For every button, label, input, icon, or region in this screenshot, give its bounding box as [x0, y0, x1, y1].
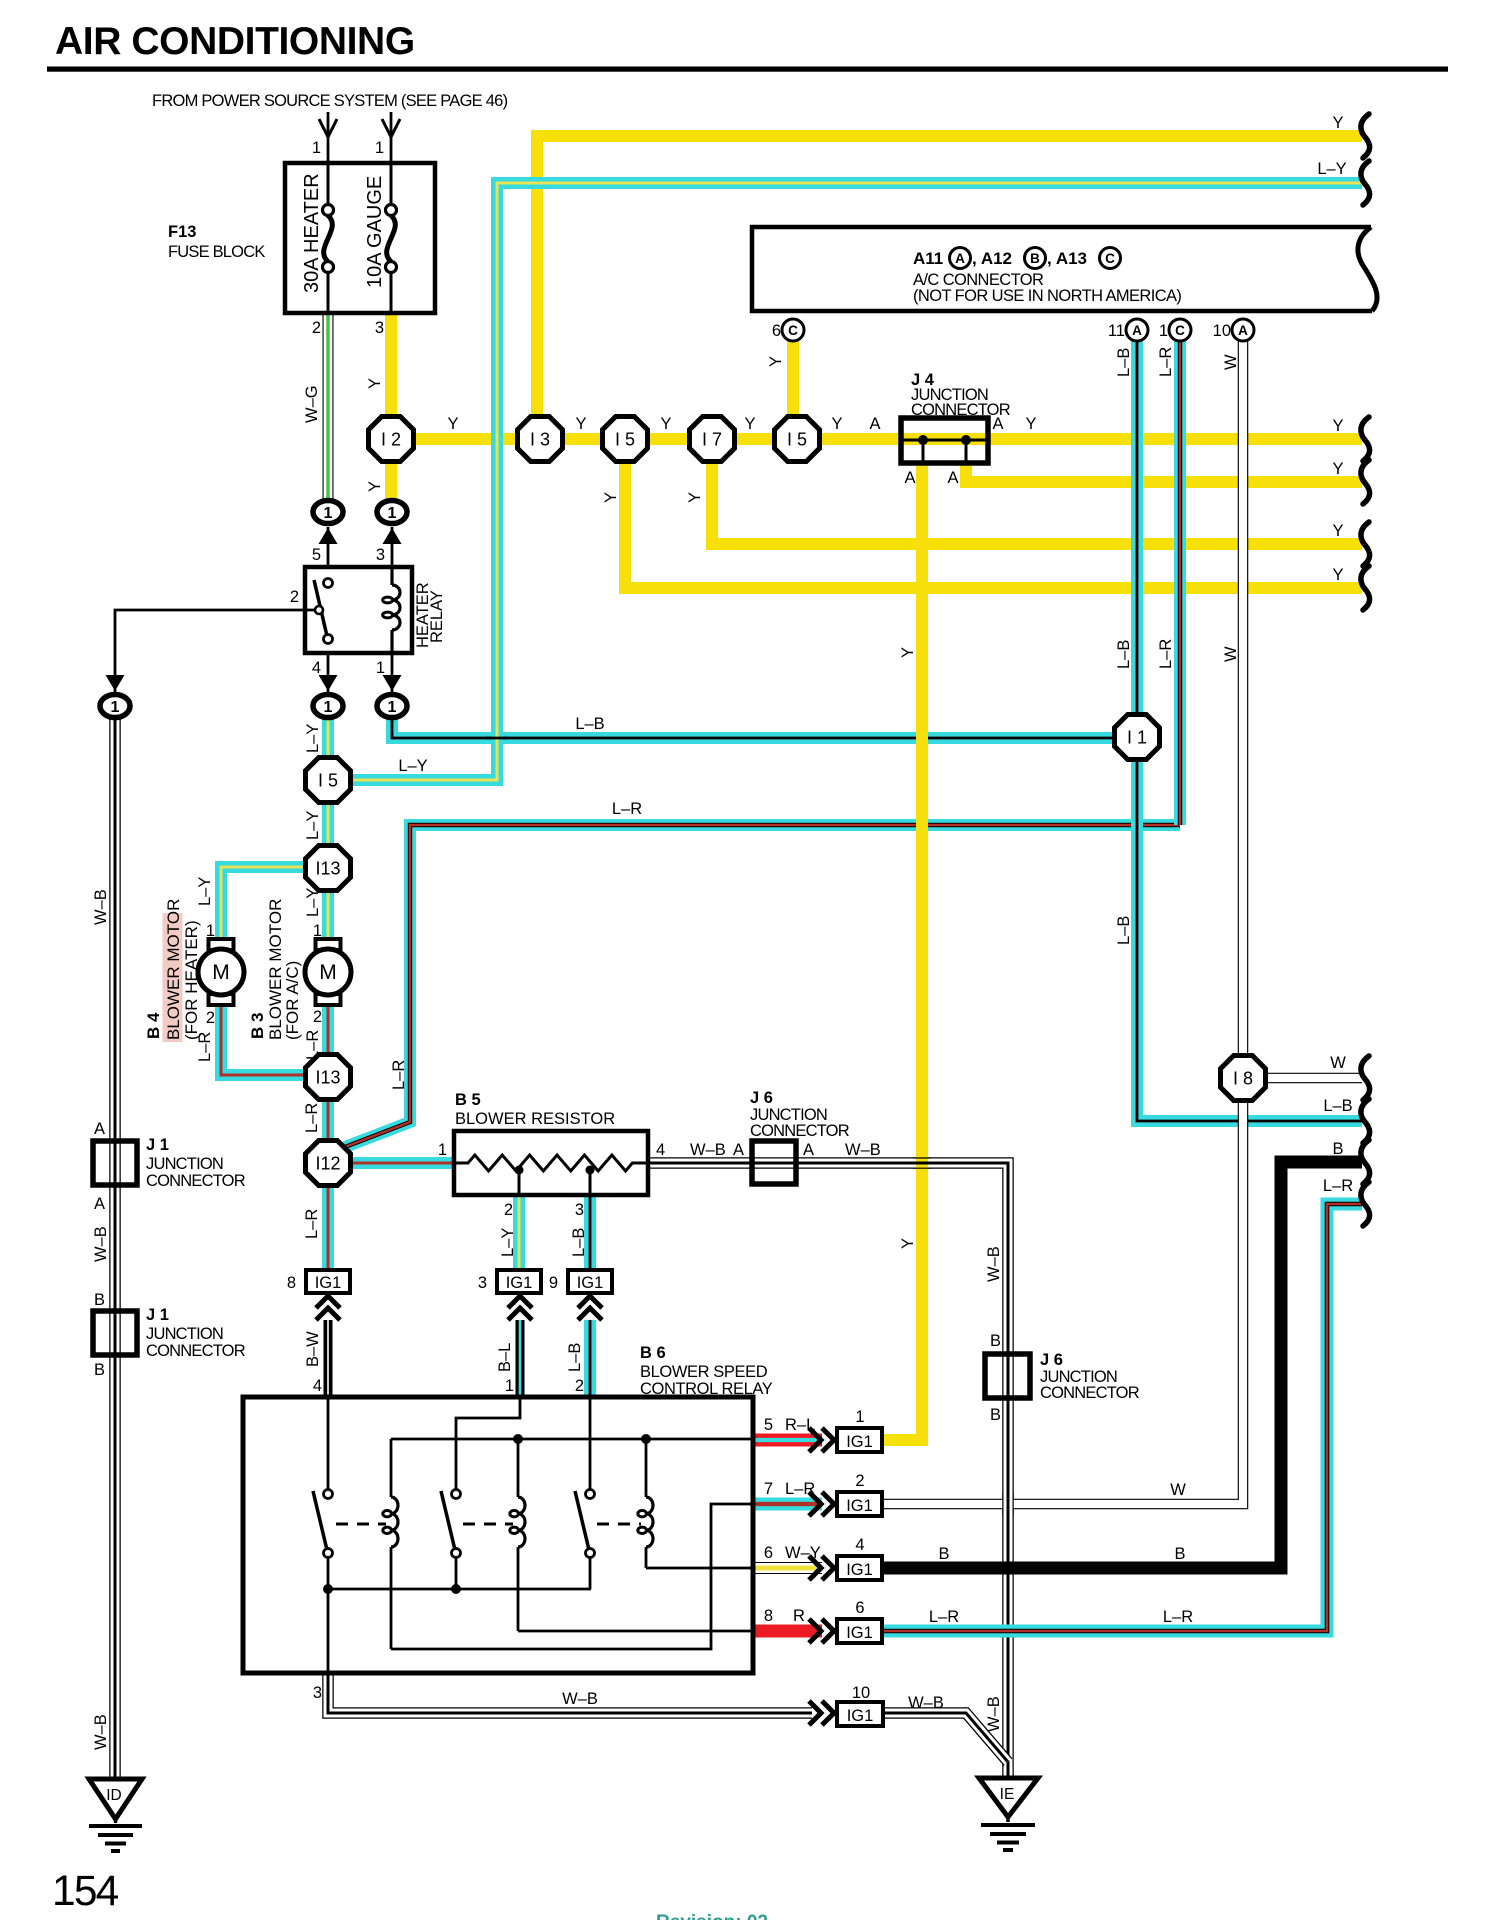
svg-text:I 5: I 5	[615, 430, 635, 450]
svg-text:1: 1	[1159, 322, 1168, 340]
wire W-G fuse pin2 to oval	[323, 313, 334, 505]
highlight pink BLOWER MOTOR B4	[163, 913, 183, 1042]
svg-text:Y: Y	[1332, 114, 1343, 132]
B6 dashed link 3	[597, 1523, 641, 1526]
svg-text:4: 4	[312, 659, 321, 677]
A/C connector box	[752, 227, 1372, 311]
ground ID	[89, 1779, 142, 1819]
wire R-L B6 pin5 stub	[753, 1434, 822, 1447]
svg-text:I 8: I 8	[1233, 1069, 1253, 1089]
svg-text:L–B: L–B	[1323, 1097, 1352, 1115]
wire heater relay pin3 to oval	[391, 527, 394, 567]
svg-text:W–B: W–B	[92, 1226, 110, 1262]
arrowhead down into oval relay pin4	[319, 675, 338, 691]
svg-text:L–R: L–R	[303, 1209, 321, 1239]
svg-text:AIR CONDITIONING: AIR CONDITIONING	[55, 20, 415, 63]
relay B6 box	[243, 1397, 753, 1673]
resistor tap 3	[586, 1166, 595, 1175]
svg-text:B–W: B–W	[304, 1331, 322, 1367]
svg-text:BLOWER RESISTOR: BLOWER RESISTOR	[455, 1110, 615, 1128]
svg-text:Y: Y	[831, 415, 842, 433]
svg-text:ID: ID	[106, 1787, 122, 1804]
svg-text:6: 6	[772, 322, 781, 340]
svg-text:I13: I13	[315, 1068, 340, 1088]
svg-text:L–B: L–B	[575, 715, 604, 733]
wire L-R I12 to IG1-8	[322, 1185, 334, 1270]
wire L-R I12 to blower resistor	[349, 1157, 456, 1169]
chevron right pin6	[809, 1556, 821, 1580]
junction dot coil3	[641, 1434, 651, 1444]
junction connector J1 upper box	[93, 1141, 137, 1185]
svg-text:J 1: J 1	[146, 1306, 169, 1324]
svg-text:9: 9	[549, 1274, 558, 1292]
wire W-B left column to ID ground	[109, 719, 121, 1778]
B6 coil 2	[517, 1439, 520, 1497]
wire Y fuse pin3 to I2	[385, 313, 397, 420]
wire B from IG1-4 up to right break	[884, 1162, 1362, 1568]
chevron right pin7	[809, 1492, 821, 1516]
svg-text:B 5: B 5	[455, 1091, 481, 1109]
B6 dashed link 1	[336, 1523, 386, 1526]
svg-text:M: M	[319, 961, 337, 984]
svg-text:8: 8	[764, 1607, 773, 1625]
svg-text:1: 1	[324, 505, 333, 522]
octagon I2	[369, 417, 414, 462]
svg-text:I 7: I 7	[702, 430, 722, 450]
chevron up IG1 3	[508, 1296, 532, 1308]
svg-text:FROM POWER SOURCE SYSTEM (SEE: FROM POWER SOURCE SYSTEM (SEE PAGE 46)	[152, 92, 508, 110]
svg-text:Y: Y	[575, 415, 586, 433]
octagon I3	[518, 417, 563, 462]
svg-text:Y: Y	[899, 647, 917, 658]
svg-text:2: 2	[504, 1201, 513, 1219]
heater relay coil	[390, 567, 393, 585]
svg-text:J 6: J 6	[750, 1089, 773, 1107]
svg-text:RELAY: RELAY	[428, 590, 446, 643]
svg-text:A: A	[1132, 323, 1142, 338]
svg-text:5: 5	[312, 546, 321, 564]
svg-text:C: C	[1175, 323, 1185, 338]
svg-text:CONNECTOR: CONNECTOR	[750, 1122, 850, 1140]
svg-text:Y: Y	[767, 356, 785, 367]
wire W-B vertical over W crossing	[1002, 1493, 1014, 1515]
svg-text:B–L: B–L	[496, 1343, 514, 1372]
junction dot coil2	[513, 1434, 523, 1444]
svg-text:2: 2	[206, 1009, 215, 1027]
octagon I5 bus	[603, 417, 648, 462]
svg-text:1: 1	[111, 699, 120, 716]
wire Y network (bus, risers, branches)	[391, 136, 1362, 1440]
wire B-L IG1-3 to B6 pin1	[516, 1320, 525, 1397]
B6 dashed link 2	[463, 1523, 513, 1526]
svg-text:BLOWER SPEED: BLOWER SPEED	[640, 1363, 768, 1381]
svg-text:I 5: I 5	[787, 430, 807, 450]
B6 switch1 to bottom bus	[327, 1557, 330, 1673]
svg-text:L–R: L–R	[1157, 639, 1175, 669]
svg-text:IG1: IG1	[577, 1274, 604, 1292]
chevron right pin3	[809, 1701, 821, 1725]
break L-B right	[1361, 1099, 1370, 1143]
svg-text:W–B: W–B	[908, 1694, 944, 1712]
wire heater relay pin4 to oval	[327, 653, 330, 692]
octagon I1	[1115, 715, 1160, 760]
svg-text:CONNECTOR: CONNECTOR	[146, 1172, 246, 1190]
svg-text:2: 2	[575, 1377, 584, 1395]
svg-text:L–B: L–B	[1115, 348, 1133, 377]
octagon I5 left	[306, 758, 351, 803]
svg-text:3: 3	[313, 1684, 322, 1702]
svg-text:L–B: L–B	[1115, 916, 1133, 945]
svg-text:A: A	[94, 1195, 105, 1213]
svg-text:IG1: IG1	[846, 1497, 873, 1515]
svg-text:4: 4	[313, 1377, 322, 1395]
svg-text:L–R: L–R	[1157, 347, 1175, 377]
svg-text:Y: Y	[366, 378, 384, 389]
connector IG1 6	[837, 1619, 882, 1643]
wire L-Y oval to I5	[322, 719, 334, 760]
B6 coil2 out to pin8	[518, 1630, 753, 1633]
svg-text:W–B: W–B	[92, 1714, 110, 1750]
B6 switch 2	[452, 1490, 461, 1499]
svg-text:1: 1	[438, 1141, 447, 1159]
svg-text:B: B	[1332, 1140, 1343, 1158]
wire L-B vertical pin11A through I1 to right break	[1137, 341, 1362, 1121]
svg-text:CONNECTOR: CONNECTOR	[146, 1342, 246, 1360]
svg-text:L–Y: L–Y	[196, 877, 214, 906]
svg-text:L–Y: L–Y	[304, 888, 322, 917]
svg-text:Y: Y	[1025, 415, 1036, 433]
svg-text:IG1: IG1	[847, 1707, 874, 1725]
connector oval 1 relay out right	[377, 695, 407, 718]
fuse F13 10A GAUGE element	[390, 163, 393, 205]
svg-text:W: W	[1222, 354, 1240, 370]
svg-text:1: 1	[375, 139, 384, 157]
break W right	[1361, 1056, 1370, 1100]
octagon I7	[690, 417, 735, 462]
arrowhead open V fuse 1	[319, 119, 337, 137]
connector oval 1 left column	[100, 695, 130, 718]
svg-text:4: 4	[656, 1141, 665, 1159]
resistor element zigzag	[454, 1155, 648, 1171]
svg-text:A11: A11	[913, 249, 943, 268]
fuse block F13 box	[285, 163, 435, 313]
B6 coil1 out to pin7	[391, 1504, 753, 1649]
svg-text:Y: Y	[899, 1238, 917, 1249]
svg-text:1: 1	[376, 659, 385, 677]
svg-text:IG1: IG1	[315, 1274, 342, 1292]
svg-text:M: M	[212, 961, 230, 984]
arrowhead up into oval relay pin5	[319, 528, 338, 544]
chevron right pin5	[809, 1428, 821, 1452]
junction connector J6 lower box	[985, 1354, 1030, 1398]
B6 pin4 internal lead	[327, 1397, 330, 1490]
connector IG1 4	[837, 1556, 882, 1580]
svg-text:A: A	[733, 1141, 744, 1159]
svg-text:A: A	[94, 1120, 105, 1138]
B6 coil 1	[390, 1439, 393, 1497]
svg-text:1: 1	[388, 699, 397, 716]
ground IE	[979, 1778, 1038, 1817]
wire L-R I13 to I12	[322, 1099, 334, 1143]
svg-text:F13: F13	[168, 223, 196, 241]
svg-text:IE: IE	[1000, 1786, 1015, 1803]
svg-text:Y: Y	[1332, 417, 1343, 435]
wire L-R B4 motor to I13	[221, 999, 307, 1075]
connector oval 1 fuse-relay right	[377, 501, 407, 524]
svg-text:1: 1	[312, 139, 321, 157]
svg-text:W: W	[1170, 1481, 1186, 1499]
wire L-B IG1-9 to B6 pin2	[584, 1320, 596, 1397]
svg-text:Y: Y	[1332, 566, 1343, 584]
connector IG1 2	[837, 1492, 882, 1516]
svg-text:Y: Y	[744, 415, 755, 433]
svg-text:R: R	[793, 1607, 805, 1625]
svg-text:Revision: 02: Revision: 02	[656, 1912, 768, 1920]
svg-text:3: 3	[575, 1201, 584, 1219]
wire L-Y from I5 up and across to right break	[350, 183, 1362, 780]
wire heater relay pin2 to left column	[115, 610, 305, 692]
svg-text:2: 2	[855, 1472, 864, 1490]
svg-text:CONTROL RELAY: CONTROL RELAY	[640, 1380, 773, 1398]
svg-text:L–B: L–B	[570, 1228, 588, 1257]
octagon I8	[1221, 1056, 1266, 1101]
wire L-B from heater relay pin1 oval to I1	[392, 719, 1115, 738]
motor B4 blower (for heater)	[209, 939, 234, 950]
wire heater relay pin1 to oval	[391, 653, 394, 692]
J4 internal bus	[901, 439, 988, 442]
connector IG1 9	[568, 1270, 612, 1293]
svg-text:11: 11	[1108, 322, 1125, 340]
svg-text:JUNCTION: JUNCTION	[146, 1325, 223, 1343]
svg-text:B 3: B 3	[248, 1013, 267, 1039]
octagon I13 lower	[306, 1055, 351, 1100]
svg-text:B: B	[94, 1361, 105, 1379]
svg-text:3: 3	[376, 546, 385, 564]
junction dot sw1	[323, 1584, 333, 1594]
wire W-B from blower resistor through J6 down to IE ground	[648, 1163, 1008, 1777]
svg-text:10: 10	[852, 1684, 870, 1702]
svg-text:I 1: I 1	[1127, 728, 1147, 748]
junction connector J4 box	[901, 418, 988, 463]
wire W-Y B6 pin6 stub	[753, 1562, 822, 1574]
svg-text:I13: I13	[315, 859, 340, 879]
svg-text:, A12: , A12	[972, 249, 1012, 268]
svg-text:C: C	[788, 323, 798, 338]
B6 coil 3	[645, 1439, 648, 1497]
B6 switch 1	[324, 1490, 333, 1499]
svg-text:L–R: L–R	[304, 1030, 322, 1060]
svg-text:L–R: L–R	[303, 1103, 321, 1133]
svg-text:I 3: I 3	[530, 430, 550, 450]
wire W-B edge lines over yellow crossing	[913, 1157, 931, 1159]
octagon I5 bus2	[775, 417, 820, 462]
wire L-Y resistor tap2 to IG1-3	[513, 1195, 525, 1270]
svg-text:I12: I12	[315, 1154, 340, 1174]
svg-text:W–B: W–B	[985, 1696, 1003, 1732]
svg-text:10A GAUGE: 10A GAUGE	[364, 176, 386, 288]
break L-Y top right	[1361, 161, 1370, 205]
svg-text:W–G: W–G	[303, 385, 321, 423]
svg-text:1: 1	[505, 1377, 514, 1395]
arrowhead down into oval left column	[106, 675, 125, 691]
junction connector J6 upper box	[752, 1141, 796, 1184]
svg-text:L–B: L–B	[566, 1343, 584, 1372]
svg-text:L–Y: L–Y	[499, 1228, 517, 1257]
svg-text:IG1: IG1	[846, 1624, 873, 1642]
svg-text:1: 1	[855, 1408, 864, 1426]
svg-text:W–B: W–B	[92, 889, 110, 925]
svg-text:IG1: IG1	[506, 1274, 533, 1292]
svg-text:Y: Y	[1332, 460, 1343, 478]
arrowhead down into oval relay pin1	[383, 675, 402, 691]
connector IG1 1	[837, 1428, 882, 1452]
wire W from I8 to right break	[1265, 1073, 1362, 1084]
svg-text:30A HEATER: 30A HEATER	[301, 173, 323, 293]
svg-text:IG1: IG1	[846, 1561, 873, 1579]
svg-text:(NOT FOR USE IN NORTH AMERICA): (NOT FOR USE IN NORTH AMERICA)	[913, 287, 1181, 305]
fuse F13 30A HEATER element	[327, 163, 330, 205]
wire L-Y I5 to I13	[322, 802, 334, 847]
svg-text:B: B	[94, 1291, 105, 1309]
B6 pin1 internal lead	[456, 1397, 520, 1490]
svg-text:(FOR A/C): (FOR A/C)	[283, 961, 302, 1040]
svg-text:(FOR HEATER): (FOR HEATER)	[182, 920, 201, 1040]
wire L-Y I13 to B3 blower motor	[322, 890, 334, 946]
wire L-R B3 motor to I13	[322, 999, 334, 1057]
svg-text:L–R: L–R	[1163, 1608, 1193, 1626]
octagon I12	[306, 1141, 351, 1186]
break B right	[1361, 1140, 1370, 1184]
svg-text:W–B: W–B	[562, 1690, 598, 1708]
connector oval 1 fuse-relay left	[313, 501, 343, 524]
svg-text:J 6: J 6	[1040, 1351, 1063, 1369]
svg-text:B 4: B 4	[144, 1012, 163, 1039]
octagon I13 upper	[306, 846, 351, 891]
svg-text:A: A	[803, 1141, 814, 1159]
svg-text:2: 2	[313, 1008, 322, 1026]
wire Y IG1-1 output corner	[884, 1434, 922, 1446]
connector IG1 8	[306, 1270, 350, 1293]
wire L-Y I13 to B4 blower motor	[221, 867, 307, 946]
wire L-B resistor tap3 to IG1-9	[584, 1195, 596, 1270]
svg-text:CONNECTOR: CONNECTOR	[911, 401, 1011, 419]
B6 coil top bus	[391, 1438, 753, 1441]
break L-R right	[1361, 1182, 1370, 1226]
wire W-B from IG1-10 to IE ground	[884, 1713, 1008, 1762]
B6 switch 3	[586, 1490, 595, 1499]
svg-text:IG1: IG1	[846, 1433, 873, 1451]
svg-text:L–Y: L–Y	[304, 724, 322, 753]
svg-text:Y: Y	[686, 492, 704, 503]
svg-text:J 1: J 1	[146, 1136, 169, 1154]
svg-text:3: 3	[375, 319, 384, 337]
blower resistor B5 box	[454, 1131, 648, 1195]
svg-text:L–B: L–B	[1115, 640, 1133, 669]
break Y second right	[1361, 460, 1370, 504]
svg-text:A: A	[869, 415, 880, 433]
svg-text:L–Y: L–Y	[304, 811, 322, 840]
svg-text:6: 6	[855, 1599, 864, 1617]
heater relay switch	[324, 579, 333, 588]
svg-text:B: B	[1174, 1545, 1185, 1563]
svg-text:A: A	[955, 251, 965, 266]
break Y top right	[1361, 114, 1370, 158]
break Y fourth right	[1361, 566, 1370, 610]
svg-text:6: 6	[764, 1544, 773, 1562]
svg-text:10: 10	[1213, 322, 1231, 340]
svg-text:L–R: L–R	[929, 1608, 959, 1626]
svg-text:I 5: I 5	[318, 771, 338, 791]
svg-text:B: B	[938, 1545, 949, 1563]
svg-text:Y: Y	[366, 481, 384, 492]
svg-text:W–B: W–B	[690, 1141, 726, 1159]
svg-text:B: B	[1030, 251, 1040, 266]
break Y bus right	[1361, 417, 1370, 461]
svg-text:C: C	[1105, 251, 1115, 266]
junction dot sw2	[451, 1584, 461, 1594]
svg-text:A: A	[1238, 323, 1248, 338]
svg-text:CONNECTOR: CONNECTOR	[1040, 1384, 1140, 1402]
svg-text:4: 4	[855, 1536, 864, 1554]
svg-text:W: W	[1330, 1054, 1346, 1072]
heater relay box	[305, 567, 412, 653]
B6 switch2 to bus	[455, 1557, 458, 1589]
title underline rule	[47, 67, 1448, 72]
wire W from pin10 A through I8 down and left to IG1-2	[884, 341, 1243, 1504]
break Y third right	[1361, 522, 1370, 566]
svg-text:L–R: L–R	[612, 800, 642, 818]
chevron up IG1 9	[578, 1296, 602, 1308]
B6 bottom bus	[328, 1588, 591, 1591]
svg-text:L–R: L–R	[1323, 1177, 1353, 1195]
svg-text:FUSE BLOCK: FUSE BLOCK	[168, 243, 265, 261]
svg-text:A: A	[947, 469, 958, 487]
svg-text:8: 8	[287, 1274, 296, 1292]
svg-text:L–Y: L–Y	[1317, 160, 1346, 178]
connector IG1 3	[497, 1270, 541, 1293]
svg-text:, A13: , A13	[1047, 249, 1087, 268]
svg-text:B: B	[990, 1332, 1001, 1350]
svg-text:W: W	[1222, 646, 1240, 662]
B6 coil3 out to pin6	[646, 1567, 753, 1570]
svg-text:3: 3	[478, 1274, 487, 1292]
wire L-R from I12 up x410 across y825 to pin C vertical	[345, 825, 1180, 1147]
svg-text:W–B: W–B	[845, 1141, 881, 1159]
arrowhead up into oval relay pin3	[383, 528, 402, 544]
svg-text:I 2: I 2	[381, 430, 401, 450]
arrowhead open V fuse 2	[382, 119, 400, 137]
svg-text:B 6: B 6	[640, 1344, 666, 1362]
wire R B6 pin8 stub	[753, 1625, 822, 1638]
chevron up IG1 8	[316, 1296, 340, 1308]
wire B-W IG1-8 to B6 pin4	[324, 1320, 333, 1397]
connector IG1 10	[837, 1702, 883, 1726]
junction connector J1 lower box	[93, 1311, 137, 1355]
svg-text:Y: Y	[447, 415, 458, 433]
chevron right pin8	[809, 1619, 821, 1643]
wire L-R from IG1-6 up to right break	[884, 1204, 1362, 1631]
wire L-B core redraw at L-Y crossing	[486, 737, 508, 740]
svg-text:L–Y: L–Y	[398, 757, 427, 775]
svg-text:Y: Y	[602, 492, 620, 503]
connector oval 1 relay out left	[313, 695, 343, 718]
svg-text:1: 1	[324, 699, 333, 716]
svg-text:2: 2	[312, 319, 321, 337]
svg-text:W–B: W–B	[985, 1246, 1003, 1282]
svg-text:Y: Y	[660, 415, 671, 433]
svg-text:2: 2	[290, 588, 299, 606]
svg-text:154: 154	[52, 1868, 119, 1915]
